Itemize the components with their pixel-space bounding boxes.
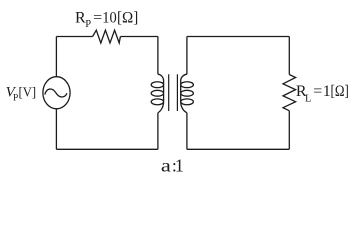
wire: primary winding top stub	[157, 37, 159, 75]
resistor RP (horizontal zigzag)	[93, 30, 121, 43]
wire: secondary right vertical lower	[288, 111, 290, 150]
wire: secondary bottom	[187, 148, 289, 150]
label VP [V]	[6, 84, 36, 103]
sine wave inside source	[45, 89, 67, 97]
inductor L1 (primary winding, loops left)	[151, 74, 163, 113]
svg-text:[Ω]: [Ω]	[117, 9, 138, 26]
wire: primary bottom	[56, 148, 157, 150]
svg-text:a: a	[161, 156, 171, 176]
inductor L2 (secondary winding, loops right)	[181, 74, 194, 113]
svg-text:=: =	[93, 9, 102, 26]
wire: secondary winding top stub	[186, 37, 188, 75]
label a:1 (turns ratio)	[161, 156, 184, 176]
svg-text:1: 1	[175, 156, 184, 176]
svg-text:1: 1	[323, 83, 331, 100]
wire: primary top right segment	[120, 36, 157, 38]
wire: secondary right vertical upper	[288, 37, 290, 75]
wire: primary left vertical lower	[55, 109, 57, 150]
svg-text:[V]: [V]	[19, 84, 37, 99]
label RP = 10[ohm]	[75, 9, 138, 30]
transformer core line left	[168, 74, 170, 111]
label RL = 1[ohm]	[296, 83, 349, 105]
voltage source VP (AC source circle)	[43, 77, 70, 109]
svg-text:P: P	[13, 93, 18, 103]
svg-text:[Ω]: [Ω]	[331, 83, 349, 100]
wire: primary winding bottom stub	[157, 113, 159, 150]
svg-text:=: =	[313, 83, 322, 100]
resistor RL (vertical zigzag)	[283, 75, 296, 111]
svg-text:10: 10	[102, 9, 117, 26]
wire: primary left vertical upper	[55, 37, 57, 77]
svg-text:P: P	[85, 19, 91, 30]
transformer core line right	[176, 74, 178, 111]
wire: primary top left segment	[56, 36, 92, 38]
svg-text:L: L	[305, 94, 311, 105]
wire: secondary top	[187, 36, 289, 38]
wire: secondary winding bottom stub	[186, 113, 188, 150]
